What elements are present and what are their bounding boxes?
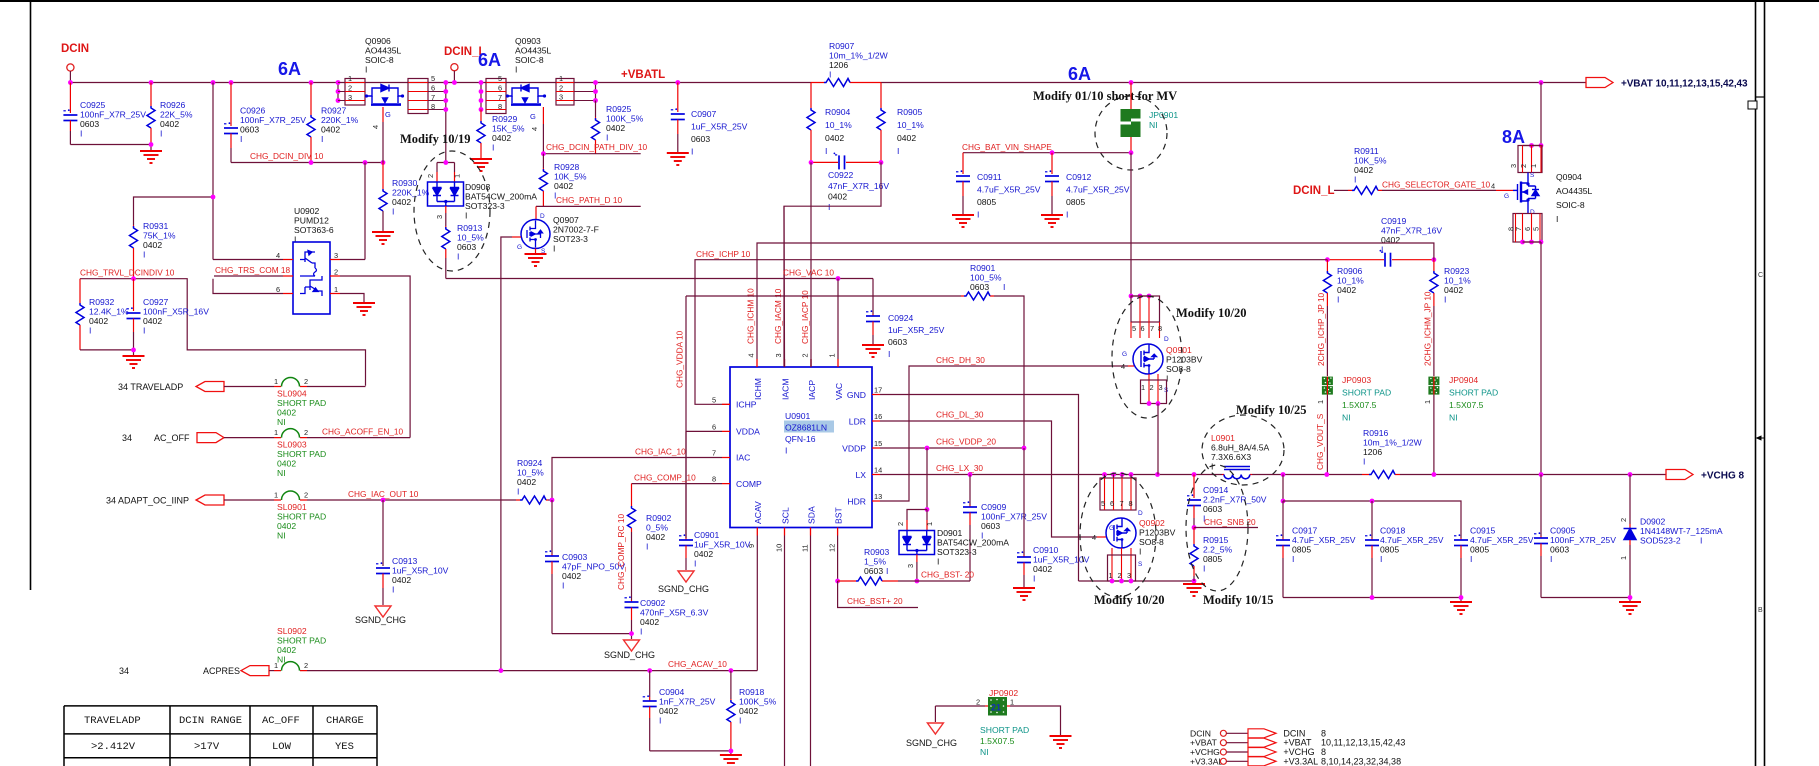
svg-text:1206: 1206 — [829, 60, 848, 70]
svg-text:8: 8 — [498, 102, 502, 111]
wire VDDP to D0901 riser — [926, 448, 928, 510]
svg-text:I: I — [240, 134, 242, 144]
wire Q0907 gate — [512, 236, 521, 238]
wire HDR/CHG_DH net — [880, 366, 1128, 501]
power flag list — [1190, 728, 1223, 766]
wire GND pin17 net — [880, 395, 1079, 582]
svg-text:I: I — [80, 129, 82, 139]
svg-text:6: 6 — [276, 285, 280, 294]
wire ACAV riser — [756, 536, 758, 671]
capacitor C0913 — [381, 498, 386, 503]
IC U0901 bottom pin stubs — [757, 528, 837, 536]
svg-text:0805: 0805 — [1380, 545, 1399, 555]
wire U0902 pin3 riser — [364, 163, 366, 260]
transistor Q0902 source pin box — [1112, 548, 1131, 581]
svg-text:ACAV: ACAV — [753, 501, 763, 524]
resistor R0931 — [133, 225, 135, 226]
svg-text:0_5%: 0_5% — [646, 523, 668, 533]
svg-text:4: 4 — [371, 125, 380, 129]
wire VDDA net — [686, 296, 961, 538]
svg-text:Q0904: Q0904 — [1556, 172, 1582, 182]
svg-text:SOIC-8: SOIC-8 — [1556, 200, 1585, 210]
wire +VCHG line — [1252, 474, 1666, 476]
svg-text:G: G — [517, 244, 522, 251]
svg-text:22K_5%: 22K_5% — [160, 110, 193, 120]
wire DCIN branch to divider — [134, 83, 214, 260]
svg-text:5: 5 — [712, 395, 716, 404]
svg-text:C0909: C0909 — [981, 502, 1007, 512]
svg-text:I: I — [785, 446, 787, 456]
svg-text:R0903: R0903 — [864, 547, 890, 557]
svg-text:I: I — [829, 70, 831, 80]
svg-text:L0901: L0901 — [1211, 433, 1235, 443]
svg-text:2: 2 — [1150, 383, 1154, 392]
svg-text:P1203BV: P1203BV — [1166, 355, 1203, 365]
transistor Q0904 top pin box — [1529, 143, 1534, 148]
svg-text:CHG_ICHP 10: CHG_ICHP 10 — [696, 249, 751, 259]
svg-text:I: I — [392, 585, 394, 595]
wire SCL SDA down — [785, 536, 811, 766]
svg-text:CHG_VDDA 10: CHG_VDDA 10 — [675, 330, 685, 388]
svg-text:CHG_LX_30: CHG_LX_30 — [936, 463, 983, 473]
svg-text:R0905: R0905 — [897, 107, 923, 117]
svg-text:6A: 6A — [1068, 64, 1091, 84]
wire CHG_BAT_VIN_SHAPE — [963, 152, 1131, 154]
svg-text:7: 7 — [1514, 227, 1523, 231]
svg-text:I: I — [515, 65, 517, 75]
svg-text:R0904: R0904 — [825, 107, 851, 117]
svg-text:SGND_CHG: SGND_CHG — [355, 615, 406, 625]
svg-text:ACPRES: ACPRES — [203, 666, 240, 676]
svg-text:VAC: VAC — [834, 383, 844, 400]
svg-text:1uF_X5R_10V: 1uF_X5R_10V — [392, 566, 449, 576]
svg-text:SHORT PAD: SHORT PAD — [980, 725, 1029, 735]
svg-text:CHG_TRS_COM 18: CHG_TRS_COM 18 — [215, 265, 291, 275]
svg-text:0402: 0402 — [739, 706, 758, 716]
svg-text:3: 3 — [435, 215, 444, 219]
svg-text:1: 1 — [274, 661, 278, 670]
svg-text:4.7uF_X5R_25V: 4.7uF_X5R_25V — [1292, 535, 1356, 545]
svg-text:4: 4 — [1121, 362, 1125, 371]
svg-text:1: 1 — [334, 285, 338, 294]
svg-text:47nF_X7R_16V: 47nF_X7R_16V — [828, 181, 889, 191]
svg-text:10_1%: 10_1% — [825, 120, 852, 130]
svg-text:0402: 0402 — [897, 133, 916, 143]
svg-text:I: I — [1550, 554, 1552, 564]
svg-text:0402: 0402 — [828, 192, 847, 202]
svg-text:0805: 0805 — [1066, 197, 1085, 207]
svg-text:0402: 0402 — [277, 521, 296, 531]
svg-text:16: 16 — [874, 412, 882, 421]
wire Q0903 right pins to column — [574, 92, 596, 101]
svg-text:0805: 0805 — [1470, 545, 1489, 555]
ground under C0907 — [667, 153, 689, 165]
dashed circle around JP0901 — [1095, 96, 1167, 170]
svg-text:7.3X6.6X3: 7.3X6.6X3 — [1211, 452, 1251, 462]
svg-text:I: I — [1444, 295, 1446, 305]
svg-text:6.8uH_8A/4.5A: 6.8uH_8A/4.5A — [1211, 443, 1270, 453]
svg-text:YES: YES — [335, 741, 354, 753]
svg-text:2.2_5%: 2.2_5% — [1203, 545, 1233, 555]
svg-text:GND: GND — [847, 390, 866, 400]
svg-text:CHG_IACP 10: CHG_IACP 10 — [800, 290, 810, 344]
svg-text:1: 1 — [1010, 698, 1014, 707]
svg-text:10_1%: 10_1% — [897, 120, 924, 130]
svg-text:R0932: R0932 — [89, 297, 115, 307]
wire cap bank bottom rail + ground — [1283, 598, 1461, 602]
svg-text:0603: 0603 — [981, 521, 1000, 531]
svg-text:Q0902: Q0902 — [1139, 518, 1165, 528]
svg-text:0402: 0402 — [277, 645, 296, 655]
wire C0925/R0926 bottom rail — [70, 145, 151, 151]
svg-text:1: 1 — [1529, 164, 1538, 168]
svg-text:CHARGE: CHARGE — [326, 715, 364, 727]
IC U0902 transistors — [300, 251, 322, 297]
svg-text:0402: 0402 — [640, 617, 659, 627]
svg-text:D: D — [540, 213, 545, 220]
sgnd under C0913 — [375, 606, 391, 617]
svg-text:4: 4 — [1491, 182, 1495, 191]
svg-text:100K_5%: 100K_5% — [606, 114, 644, 124]
jumper JP0901 — [1130, 83, 1132, 153]
wire DCIN stub to bus — [69, 71, 71, 83]
wire LX net — [880, 474, 1222, 476]
svg-text:+VBATL: +VBATL — [621, 69, 665, 81]
svg-text:DCIN RANGE: DCIN RANGE — [179, 715, 242, 727]
svg-text:0402: 0402 — [606, 123, 625, 133]
svg-text:OZ8681LN: OZ8681LN — [785, 423, 827, 433]
svg-text:2: 2 — [1118, 571, 1122, 580]
transistor Q0906 left pins column — [337, 83, 339, 101]
svg-text:JP0903: JP0903 — [1342, 375, 1371, 385]
svg-text:7: 7 — [1120, 499, 1124, 508]
svg-text:0402: 0402 — [659, 706, 678, 716]
svg-text:CHG_DCIN_PATH_DIV_10: CHG_DCIN_PATH_DIV_10 — [546, 142, 648, 152]
svg-text:2: 2 — [1519, 164, 1528, 168]
svg-text:R0925: R0925 — [606, 104, 632, 114]
svg-text:CHG_IAC_10: CHG_IAC_10 — [635, 447, 686, 457]
svg-text:0805: 0805 — [977, 197, 996, 207]
svg-text:I: I — [1337, 295, 1339, 305]
dashed ellipse around C0914/R0915 — [1186, 465, 1248, 591]
svg-text:JP0902: JP0902 — [989, 688, 1018, 698]
svg-text:100_5%: 100_5% — [970, 273, 1002, 283]
svg-text:+VBAT 10,11,12,13,15,42,43: +VBAT 10,11,12,13,15,42,43 — [1621, 79, 1748, 90]
svg-text:8A: 8A — [1502, 127, 1525, 147]
svg-text:G: G — [1109, 525, 1114, 532]
svg-text:1: 1 — [348, 74, 352, 83]
svg-text:I: I — [1354, 175, 1356, 185]
svg-text:C0902: C0902 — [640, 598, 666, 608]
svg-text:0402: 0402 — [1444, 285, 1463, 295]
node +VBAT arrow port — [1586, 78, 1613, 88]
svg-text:I: I — [465, 211, 467, 221]
svg-text:SHORT PAD: SHORT PAD — [1342, 388, 1391, 398]
wire U0902 pin1 to ground — [340, 294, 364, 303]
resistor R0929 — [480, 110, 482, 122]
svg-text:C0903: C0903 — [562, 552, 588, 562]
svg-text:0805: 0805 — [1203, 554, 1222, 564]
svg-text:3: 3 — [559, 93, 563, 102]
svg-text:R0927: R0927 — [321, 106, 347, 116]
svg-text:6: 6 — [712, 422, 716, 431]
svg-text:CHG_BST- 20: CHG_BST- 20 — [921, 570, 974, 580]
svg-text:1: 1 — [274, 428, 278, 437]
svg-text:21: 21 — [991, 703, 1001, 713]
svg-text:1: 1 — [1141, 383, 1145, 392]
svg-text:1: 1 — [925, 522, 934, 526]
svg-text:12.4K_1%: 12.4K_1% — [89, 307, 129, 317]
wire D0901 pin3 — [916, 555, 918, 563]
capacitor C0927 — [133, 279, 135, 311]
svg-text:SDA: SDA — [807, 506, 817, 524]
svg-text:Q0901: Q0901 — [1166, 345, 1192, 355]
svg-text:1_5%: 1_5% — [864, 557, 886, 567]
svg-text:2: 2 — [976, 698, 980, 707]
wire divider bottom rail — [80, 350, 134, 355]
resistor R0918 — [730, 671, 732, 699]
svg-text:R0915: R0915 — [1203, 535, 1229, 545]
svg-text:6: 6 — [1141, 324, 1145, 333]
svg-text:12: 12 — [828, 544, 837, 552]
border tab rectangle — [1748, 101, 1757, 109]
svg-text:NI: NI — [277, 531, 286, 541]
svg-text:CHG_IAC_OUT 10: CHG_IAC_OUT 10 — [348, 489, 419, 499]
svg-text:I: I — [1381, 245, 1383, 255]
svg-text:R0911: R0911 — [1354, 146, 1379, 156]
capacitor C0922 series — [811, 161, 881, 163]
svg-text:SHORT PAD: SHORT PAD — [277, 512, 326, 522]
wire selector gate with R0911 — [1334, 189, 1348, 191]
svg-text:6: 6 — [1110, 499, 1114, 508]
wire ACPRES line — [307, 670, 757, 672]
svg-text:C0913: C0913 — [392, 556, 418, 566]
svg-text:1.5X07.5: 1.5X07.5 — [1449, 400, 1484, 410]
svg-text:CHG_VAC 10: CHG_VAC 10 — [783, 268, 834, 278]
svg-text:SO8-8: SO8-8 — [1139, 537, 1164, 547]
transistor Q0902 mosfet — [1106, 518, 1136, 548]
svg-text:I: I — [1380, 554, 1382, 564]
svg-text:BAT54CW_200mA: BAT54CW_200mA — [937, 538, 1009, 548]
svg-text:I: I — [886, 566, 888, 576]
resistor R0906 — [1326, 260, 1328, 271]
svg-text:ICHP: ICHP — [736, 400, 757, 410]
svg-text:C0911: C0911 — [977, 172, 1002, 182]
jumper SL0903 — [274, 437, 307, 439]
svg-text:I: I — [1003, 282, 1005, 292]
resistor R0925 — [595, 101, 597, 118]
svg-text:10,11,12,13,15,42,43: 10,11,12,13,15,42,43 — [1321, 738, 1405, 748]
svg-text:I: I — [1470, 554, 1472, 564]
svg-text:0603: 0603 — [691, 134, 710, 144]
capacitor C0902 — [631, 600, 633, 602]
wire Q0907 source + ground — [535, 249, 537, 254]
dashed ellipse around L0901 — [1202, 415, 1284, 485]
svg-text:8: 8 — [1129, 499, 1133, 508]
svg-text:0603: 0603 — [1550, 545, 1569, 555]
wire CHG_PATH_D — [536, 205, 641, 207]
svg-text:I: I — [1363, 457, 1365, 467]
transistor Q0903 left pins column — [480, 83, 482, 110]
border zone tick — [1756, 96, 1765, 98]
svg-text:5: 5 — [1101, 499, 1105, 508]
svg-text:2: 2 — [426, 174, 435, 178]
svg-text:R0931: R0931 — [143, 221, 169, 231]
svg-text:1206: 1206 — [1363, 447, 1382, 457]
svg-text:SHORT PAD: SHORT PAD — [277, 398, 326, 408]
resistor R0928 — [542, 154, 544, 168]
svg-text:VDDP: VDDP — [842, 443, 866, 453]
wire U0902 pin4 — [213, 259, 283, 261]
svg-text:NI: NI — [980, 747, 989, 757]
transistor Q0901 mosfet — [1133, 344, 1163, 374]
wire cap bank top rail — [1283, 501, 1461, 538]
svg-text:CHG_BAT_VIN_SHAPE: CHG_BAT_VIN_SHAPE — [962, 142, 1052, 152]
svg-text:1: 1 — [828, 353, 837, 357]
resistor R0904 — [810, 83, 812, 109]
svg-text:5: 5 — [1132, 324, 1136, 333]
svg-text:0402: 0402 — [1337, 285, 1356, 295]
IC U0902 box — [293, 242, 330, 314]
svg-text:P1203BV: P1203BV — [1139, 528, 1176, 538]
svg-text:3: 3 — [774, 353, 783, 357]
svg-text:S: S — [1530, 172, 1535, 179]
svg-text:3: 3 — [1509, 164, 1518, 168]
wire IAC net — [552, 458, 722, 501]
svg-text:CHG_COMP_RC 10: CHG_COMP_RC 10 — [616, 514, 626, 590]
svg-text:C: C — [1758, 272, 1763, 279]
svg-text:I: I — [89, 326, 91, 336]
svg-text:1: 1 — [274, 377, 278, 386]
svg-text:I: I — [1033, 574, 1035, 584]
svg-text:Modify 10/20: Modify 10/20 — [1094, 593, 1164, 607]
svg-text:220K_1%: 220K_1% — [321, 115, 359, 125]
capacitor C0901 — [685, 431, 687, 538]
ground under R0926 — [140, 151, 162, 163]
svg-text:I: I — [739, 716, 741, 726]
svg-text:>17V: >17V — [194, 741, 220, 753]
transistor Q0904 bottom pin box — [1513, 214, 1542, 243]
wire main DCIN/+VBATL bus y=82.5 — [70, 82, 1586, 84]
svg-text:I: I — [691, 147, 693, 157]
svg-text:0402: 0402 — [277, 408, 296, 418]
svg-text:2.2nF_X7R_50V: 2.2nF_X7R_50V — [1203, 495, 1267, 505]
svg-text:R0913: R0913 — [457, 223, 483, 233]
svg-text:SHORT PAD: SHORT PAD — [277, 449, 326, 459]
svg-text:34 TRAVELADP: 34 TRAVELADP — [118, 382, 183, 392]
resistor R0932 — [79, 279, 81, 303]
svg-text:4.7uF_X5R_25V: 4.7uF_X5R_25V — [1470, 535, 1534, 545]
svg-text:0603: 0603 — [970, 282, 989, 292]
jumper JP0903 — [1322, 377, 1333, 395]
dashed modify ellipse around D0903 — [414, 151, 490, 271]
svg-text:1: 1 — [453, 174, 462, 178]
svg-text:I: I — [694, 559, 696, 569]
svg-text:I: I — [143, 326, 145, 336]
svg-text:6: 6 — [498, 84, 502, 93]
wire ICHP net — [695, 260, 1327, 405]
svg-text:R0928: R0928 — [554, 162, 580, 172]
svg-text:0402: 0402 — [694, 549, 713, 559]
svg-text:5: 5 — [431, 74, 435, 83]
svg-text:I: I — [457, 252, 459, 262]
svg-text:NI: NI — [277, 417, 286, 427]
wire U0902 pin6 jog — [213, 279, 283, 294]
svg-text:CHG_VOUT_S: CHG_VOUT_S — [1315, 413, 1325, 470]
svg-text:R0902: R0902 — [646, 513, 672, 523]
transistor Q0903 right pin box — [556, 79, 574, 106]
svg-text:1uF_X5R_10V: 1uF_X5R_10V — [694, 540, 751, 550]
wire +VBAT down to Q0904 — [1540, 83, 1542, 146]
svg-text:C0919: C0919 — [1381, 216, 1407, 226]
svg-text:2: 2 — [304, 428, 308, 437]
table — [64, 706, 377, 766]
svg-text:CHG_SELECTOR_GATE_10: CHG_SELECTOR_GATE_10 — [1382, 180, 1490, 190]
svg-text:ICHM: ICHM — [753, 378, 763, 400]
svg-text:R0916: R0916 — [1363, 428, 1389, 438]
capacitor C0904 — [649, 671, 651, 697]
svg-text:220K_1%: 220K_1% — [392, 188, 430, 198]
svg-text:2: 2 — [801, 353, 810, 357]
svg-text:4: 4 — [276, 251, 280, 260]
svg-text:34: 34 — [119, 666, 129, 676]
svg-text:NI: NI — [1342, 413, 1351, 423]
svg-text:G: G — [385, 110, 391, 119]
svg-text:0402: 0402 — [143, 316, 162, 326]
sgnd left of JP0902 — [934, 706, 936, 722]
svg-text:BST: BST — [834, 507, 844, 524]
svg-text:SGND_CHG: SGND_CHG — [658, 584, 709, 594]
wire CHG_DCIN_PATH_DIV — [543, 153, 640, 155]
jumper JP0904 — [1428, 377, 1439, 395]
svg-text:SL0903: SL0903 — [277, 440, 307, 450]
wire VAC net — [446, 278, 873, 280]
svg-text:C0922: C0922 — [828, 170, 854, 180]
svg-text:D: D — [1138, 510, 1143, 517]
svg-text:4: 4 — [530, 127, 539, 131]
svg-text:I: I — [646, 542, 648, 552]
svg-text:TRAVELADP: TRAVELADP — [84, 715, 141, 727]
svg-text:D: D — [1164, 336, 1169, 343]
svg-text:2: 2 — [304, 491, 308, 500]
svg-text:2N7002-7-F: 2N7002-7-F — [553, 225, 599, 235]
svg-text:SOT23-3: SOT23-3 — [553, 234, 588, 244]
svg-text:2CHG_ICHP_JP 10: 2CHG_ICHP_JP 10 — [1316, 292, 1326, 366]
wire U0902 pin2 to ACOFF riser — [340, 276, 410, 438]
svg-text:1: 1 — [1619, 556, 1628, 560]
svg-text:BAT54CW_200mA: BAT54CW_200mA — [465, 192, 537, 202]
wire CHG_DCIN_DIV — [231, 162, 383, 164]
svg-text:I: I — [160, 129, 162, 139]
svg-text:CHG_DH_30: CHG_DH_30 — [936, 355, 985, 365]
svg-text:C0915: C0915 — [1470, 526, 1496, 536]
svg-text:U0901: U0901 — [785, 411, 811, 421]
svg-text:I: I — [659, 716, 661, 726]
ground at source rail end — [1183, 584, 1205, 596]
jumper SL0902 — [274, 670, 307, 672]
node DCIN open circle — [67, 64, 74, 71]
svg-text:34: 34 — [122, 433, 132, 443]
svg-text:>2.412V: >2.412V — [91, 741, 136, 753]
svg-text:D0901: D0901 — [937, 528, 963, 538]
svg-text:0805: 0805 — [1292, 545, 1311, 555]
svg-text:8,10,14,23,32,34,38: 8,10,14,23,32,34,38 — [1321, 756, 1401, 766]
svg-text:1.5X07.5: 1.5X07.5 — [980, 736, 1015, 746]
svg-text:QFN-16: QFN-16 — [785, 434, 816, 444]
svg-text:2CHG_ICHM_JP 10: 2CHG_ICHM_JP 10 — [1423, 291, 1433, 366]
capacitor C0903 — [551, 500, 553, 554]
svg-text:I: I — [517, 487, 519, 497]
